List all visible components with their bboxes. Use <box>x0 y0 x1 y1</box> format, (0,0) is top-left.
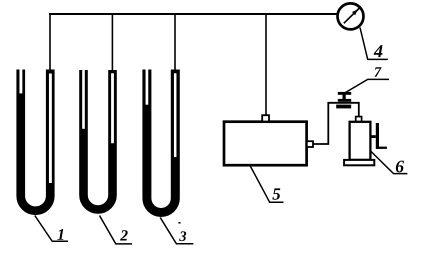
tank 5 <box>224 115 313 165</box>
label 7 leader <box>346 79 390 92</box>
label 3 leader <box>160 218 193 244</box>
label 2 <box>120 230 128 240</box>
pipe from tank 5 to valve and pump <box>313 103 359 144</box>
label 5 <box>272 188 280 199</box>
manometer U-tube 1 <box>21 69 51 211</box>
wire: drop to manometer 1 <box>49 13 51 71</box>
label 1 leader <box>35 216 68 242</box>
label 5 leader <box>250 166 284 203</box>
pump 6 <box>344 117 387 166</box>
pressure gauge 4 <box>338 3 364 29</box>
wire: drop to tank 5 <box>265 14 267 116</box>
label 4 leader <box>360 28 388 60</box>
label 4 <box>374 45 383 57</box>
manometer U-tube 2 <box>84 69 113 209</box>
wire: drop to manometer 2 <box>111 14 113 71</box>
wire: drop to manometer 3 <box>174 14 176 71</box>
label 1 <box>57 229 63 240</box>
label 7 <box>375 67 382 77</box>
valve 7 <box>336 92 351 109</box>
label 6 leader <box>370 151 407 174</box>
label 3 <box>179 231 186 241</box>
wire: pressure bus <box>49 13 337 15</box>
speck <box>179 222 181 224</box>
label 2 leader <box>100 216 133 244</box>
label 6 <box>396 161 404 173</box>
manometer U-tube 3 <box>147 69 175 213</box>
